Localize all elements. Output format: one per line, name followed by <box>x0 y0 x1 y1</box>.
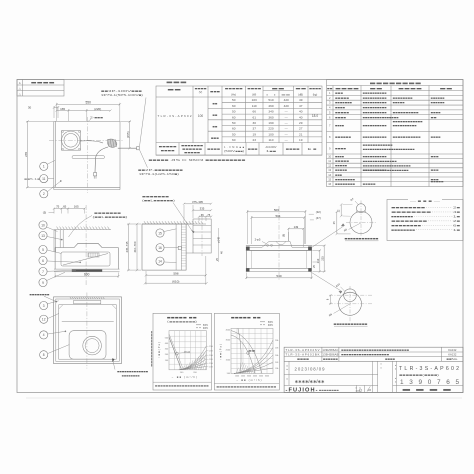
svg-text:■■■■: ■■■■ <box>247 88 262 91</box>
svg-text:■■: ■■ <box>168 88 183 92</box>
svg-text:18.2A: 18.2A <box>184 351 191 354</box>
graph 2 footnote <box>214 383 279 385</box>
svg-text:■■■■: ■■■■ <box>335 147 347 150</box>
svg-text:375~395: 375~395 <box>192 200 203 204</box>
svg-text:1■: 1■ <box>453 214 461 218</box>
svg-text:■■■■■ JIS C 9603 ■■■■■■■■■■: ■■■■■ JIS C 9603 ■■■■■■■■■■ <box>149 158 247 162</box>
svg-text:210: 210 <box>316 258 320 263</box>
svg-text:■■■■■■■: ■■■■■■■ <box>142 195 170 199</box>
balloon 2 <box>40 190 48 198</box>
graph 1 descending curve <box>169 337 182 370</box>
svg-text:■■■■: ■■■■ <box>286 148 301 151</box>
svg-text:■■■■■■■■: ■■■■■■■■ <box>391 215 414 218</box>
svg-text:16: 16 <box>158 246 162 250</box>
svg-text:23: 23 <box>252 138 256 142</box>
svg-text:■■■■■■■■■■■■■: ■■■■■■■■■■■■■ <box>117 371 149 374</box>
svg-text:149: 149 <box>294 225 299 229</box>
svg-text:■■■: ■■■ <box>431 155 440 158</box>
svg-text:9: 9 <box>42 281 44 285</box>
graph 2 box <box>214 313 279 390</box>
svg-text:110: 110 <box>252 104 257 108</box>
svg-text:(610): (610) <box>172 279 179 283</box>
svg-text:■■■■■: ■■■■■ <box>335 165 348 168</box>
svg-text:TLR-3S-AP602SV: TLR-3S-AP602SV <box>286 348 320 352</box>
svg-text:506: 506 <box>274 208 279 212</box>
leader to 2P label <box>140 150 148 168</box>
side view top dims <box>184 203 211 205</box>
svg-text:E ■: E ■ <box>308 147 318 151</box>
svg-text:■■■■■: ■■■■■ <box>184 152 201 155</box>
svg-text:■■■■: ■■■■ <box>335 125 345 128</box>
svg-text:■■■■■■■■■■■■■■■■■■■■■: ■■■■■■■■■■■■■■■■■■■■■ <box>217 385 278 388</box>
svg-text:→ ■■ (m³/h): → ■■ (m³/h) <box>236 378 262 382</box>
svg-text:■■■■■■■■: ■■■■■■■■ <box>335 178 356 181</box>
title block outline <box>284 347 463 392</box>
svg-text:■■■■■■■■■■: ■■■■■■■■■■ <box>363 97 388 100</box>
plan view centerline <box>87 117 89 193</box>
svg-text:8: 8 <box>43 353 45 357</box>
svg-text:60: 60 <box>232 138 236 142</box>
svg-text:■■■■■■■■■■■■■■■■■■■: ■■■■■■■■■■■■■■■■■■■ <box>341 354 390 357</box>
svg-text:■■■■■■: ■■■■■■ <box>431 102 446 105</box>
front view switch box <box>88 253 99 257</box>
svg-text:■■■■■■■■■■: ■■■■■■■■■■ <box>363 125 388 128</box>
dim (155) <box>121 120 132 122</box>
svg-text:7: 7 <box>42 270 44 274</box>
dim 550 <box>56 103 58 121</box>
svg-text:■■■■■■■■: ■■■■■■■■ <box>335 183 356 186</box>
svg-text:(220): (220) <box>94 107 101 111</box>
dim 600 <box>54 273 56 278</box>
svg-text:■■■■: ■■■■ <box>161 150 176 153</box>
svg-text:■■■■■■■■■■■■: ■■■■■■■■■■■■ <box>150 331 153 368</box>
svg-text:(500V■■■): (500V■■■) <box>224 150 244 153</box>
svg-text:460: 460 <box>268 104 273 108</box>
title block model rows <box>284 351 463 353</box>
svg-text:1■■: 1■■ <box>266 150 277 153</box>
svg-text:50: 50 <box>232 98 236 102</box>
side view ceiling hatch <box>142 223 206 225</box>
bottom view filter panel <box>69 331 106 360</box>
power cord to wall <box>118 147 137 149</box>
svg-text:47: 47 <box>299 104 303 108</box>
svg-text:■■■: ■■■ <box>166 81 187 85</box>
side view left dims <box>127 223 141 225</box>
svg-text:190: 190 <box>268 121 273 125</box>
svg-text:15: 15 <box>158 231 162 235</box>
svg-text:■■■■: ■■■■ <box>309 88 322 91</box>
svg-text:6■: 6■ <box>453 223 461 227</box>
svg-text:■■■: ■■■ <box>248 148 259 151</box>
svg-text:■■■: ■■■ <box>210 90 221 94</box>
svg-text:110: 110 <box>269 138 274 142</box>
svg-text:4■: 4■ <box>453 210 461 214</box>
svg-text:3: 3 <box>43 304 45 308</box>
svg-text:■■■■■: ■■■■■ <box>335 111 350 114</box>
svg-text:1■: 1■ <box>453 228 461 232</box>
front view bottom slots <box>54 268 120 270</box>
svg-text:12: 12 <box>328 164 331 168</box>
svg-text:■■■■■ ■■: ■■■■■ ■■ <box>167 315 197 319</box>
svg-text:■■■■■: ■■■■■ <box>159 146 178 149</box>
svg-text:■■■■■■■■: ■■■■■■■■ <box>29 293 50 296</box>
svg-text:■■■■■■■■■■: ■■■■■■■■■■ <box>363 107 388 110</box>
svg-text:■ ■ ■ ■: ■ ■ ■ ■ <box>402 387 455 392</box>
graph 2 grid <box>231 328 273 373</box>
svg-text:■■■■■■■■: ■■■■■■■■ <box>391 224 422 227</box>
svg-text:225: 225 <box>320 256 324 261</box>
svg-text:■■■■■■: ■■■■■■ <box>335 136 352 139</box>
svg-text:■■: ■■ <box>272 86 286 90</box>
svg-text:→ ■■ (m³/h): → ■■ (m³/h) <box>171 375 197 379</box>
svg-text:■■■■■■■■: ■■■■■■■■ <box>393 97 414 100</box>
svg-text:50: 50 <box>232 132 236 136</box>
svg-text:■■: ■■ <box>431 116 438 119</box>
svg-text:■■■■■ ■■: ■■■■■ ■■ <box>231 315 261 319</box>
svg-text:103: 103 <box>252 98 257 102</box>
svg-text:↑■■(Pa): ↑■■(Pa) <box>219 344 223 360</box>
svg-text:■■: ■■ <box>213 113 218 117</box>
svg-text:550: 550 <box>86 101 92 105</box>
svg-text:■■■■■■■(■■■■): ■■■■■■■(■■■■) <box>399 373 439 377</box>
svg-text:6000: 6000 <box>265 375 269 377</box>
slot oval <box>72 156 105 159</box>
side view duct stack <box>193 219 211 253</box>
svg-text:KA132: KA132 <box>448 353 457 357</box>
svg-text:61: 61 <box>252 115 256 119</box>
rear view bottom bar <box>246 267 312 269</box>
svg-text:■■■■■■■■■■■■■■■■■■■■: ■■■■■■■■■■■■■■■■■■■■ <box>363 165 412 168</box>
projection method cells <box>356 385 358 392</box>
svg-text:165: 165 <box>60 107 65 111</box>
svg-text:2-φ5: 2-φ5 <box>255 238 261 242</box>
svg-text:27: 27 <box>299 127 303 131</box>
svg-text:4: 4 <box>43 333 45 337</box>
svg-text:■■■■■■■■■■■■■■■■■■■■■■■■■■■: ■■■■■■■■■■■■■■■■■■■■■■■■■■■ <box>341 349 410 352</box>
svg-text:10: 10 <box>328 154 331 158</box>
balloon 1 <box>40 162 48 170</box>
svg-text:60Hz: 60Hz <box>268 325 274 327</box>
dim 165 / (220) <box>68 109 70 121</box>
side view body <box>142 224 186 270</box>
front view ceiling hatch <box>54 229 111 231</box>
svg-text:■■No.: ■■No. <box>446 357 458 361</box>
svg-text:■■■■■■■■: ■■■■■■■■ <box>391 229 416 232</box>
graph 1 box <box>153 313 211 390</box>
sheet frame <box>17 80 463 393</box>
lower mounting hole detail <box>339 292 362 315</box>
svg-text:■■: ■■ <box>327 88 333 91</box>
bottom view outer <box>54 297 122 364</box>
svg-text:(■■L■■■■■■): (■■L■■■■■■) <box>142 199 175 203</box>
svg-text:■■■: ■■■ <box>335 174 343 177</box>
svg-text:5: 5 <box>42 248 44 252</box>
motor spec strip <box>178 143 180 155</box>
svg-text:60: 60 <box>232 127 236 131</box>
svg-text:2■: 2■ <box>453 219 461 223</box>
svg-text:40: 40 <box>299 110 303 114</box>
svg-text:■■■■■■■■: ■■■■■■■■ <box>319 389 340 392</box>
svg-text:3000: 3000 <box>247 375 251 377</box>
svg-text:12: 12 <box>42 318 46 322</box>
rear right dims 225 210 25 <box>313 245 326 247</box>
svg-text:AC1000V: AC1000V <box>265 145 276 149</box>
svg-text:■■■■■: ■■■■■ <box>335 169 348 172</box>
graph 1 footnote <box>153 381 211 383</box>
svg-text:■■■■■■■■■■■: ■■■■■■■■■■■ <box>393 136 422 139</box>
dim 265 <box>26 120 53 122</box>
svg-text:(6): (6) <box>281 234 285 237</box>
rear view rail <box>246 245 312 247</box>
svg-text:■■■■■■■■■■■■■■■■■■■■: ■■■■■■■■■■■■■■■■■■■■ <box>155 384 210 387</box>
title block bottom caption <box>393 384 463 386</box>
svg-text:360: 360 <box>268 115 273 119</box>
front view side panels <box>53 230 55 252</box>
svg-text:■■■■■■■■: ■■■■■■■■ <box>122 375 141 378</box>
svg-text:■■■■■■■■■■: ■■■■■■■■■■ <box>363 155 388 158</box>
svg-text:49: 49 <box>299 98 303 102</box>
svg-text:■■■■■■■■: ■■■■■■■■ <box>391 220 428 223</box>
svg-text:■■■■: ■■■■ <box>398 87 423 91</box>
svg-text:(V): (V) <box>199 90 203 94</box>
svg-text:■■: ■■ <box>295 88 307 91</box>
leader to lower hole detail <box>310 272 342 292</box>
svg-text:■■■■■■■■■■■■: ■■■■■■■■■■■■ <box>334 322 368 326</box>
svg-text:16: 16 <box>328 182 331 186</box>
svg-text:■■■■: ■■■■ <box>431 111 442 114</box>
svg-text:265: 265 <box>24 152 28 157</box>
svg-text:■■■■■■■■■■: ■■■■■■■■■■ <box>363 136 388 139</box>
svg-text:(dB): (dB) <box>298 93 303 97</box>
svg-text:2023/08/09: 2023/08/09 <box>295 367 326 372</box>
dim 598 and (610) <box>145 271 147 285</box>
svg-text:■■■■■: ■■■■■ <box>393 102 406 105</box>
svg-text:— ■ ■ ■ —: — ■ ■ ■ — <box>410 199 440 203</box>
svg-text:■■■■■: ■■■■■ <box>363 183 377 186</box>
svg-text:75: 75 <box>56 205 60 209</box>
svg-text:TLR-3S-AP602: TLR-3S-AP602 <box>158 114 192 118</box>
side view balloons 15 16 14 <box>156 229 164 237</box>
svg-text:■■■■■■■■■■■■■■■■■■■: ■■■■■■■■■■■■■■■■■■■ <box>363 169 410 172</box>
rear dim 149 <box>288 228 290 241</box>
svg-text:■■■■: ■■■■ <box>335 107 346 110</box>
svg-text:600: 600 <box>84 272 90 276</box>
svg-text:■■■■■■■■: ■■■■■■■■ <box>369 81 421 85</box>
svg-text:(32): (32) <box>316 210 321 214</box>
svg-text:14: 14 <box>158 259 162 263</box>
rear view centerline <box>278 206 280 281</box>
scan artifact line <box>26 397 462 399</box>
rear view body <box>247 250 312 268</box>
svg-text:1/6: 1/6 <box>367 388 371 392</box>
title block left date area <box>288 361 290 385</box>
svg-text:■■5.1■: ■■5.1■ <box>24 177 41 181</box>
svg-text:50Hz: 50Hz <box>203 325 209 327</box>
svg-text:■■■■■■■■: ■■■■■■■■ <box>391 211 432 214</box>
svg-text:∗∗∗∗/∗∗/∗∗: ∗∗∗∗/∗∗/∗∗ <box>295 379 325 384</box>
svg-text:13: 13 <box>328 168 331 172</box>
svg-text:■■■■: ■■■■ <box>335 87 360 91</box>
front view balloons <box>39 221 47 229</box>
svg-text:■■■■■■■■■■■■: ■■■■■■■■■■■■ <box>393 121 424 124</box>
svg-text:■■■■: ■■■■ <box>385 357 395 361</box>
svg-text:540: 540 <box>276 274 281 278</box>
leader to upper hole detail <box>312 226 344 248</box>
leader to 3P label <box>140 98 147 147</box>
bottom view louver hatch <box>70 297 71 299</box>
rear view mounting brackets (dark) <box>246 247 249 250</box>
svg-text:■■■■■■■■■■■■■■■: ■■■■■■■■■■■■■■■ <box>363 116 400 119</box>
svg-text:(■■■■■■■■): (■■■■■■■■) <box>167 320 197 323</box>
svg-text:60: 60 <box>232 115 236 119</box>
svg-text:598: 598 <box>173 271 178 275</box>
svg-text:TLR-3S-AP602BK: TLR-3S-AP602BK <box>286 353 320 357</box>
front view centerline <box>85 205 87 285</box>
svg-text:■■■■: ■■■■ <box>431 136 442 139</box>
svg-text:■■■■■: ■■■■■ <box>225 88 244 91</box>
svg-text:420: 420 <box>284 104 289 108</box>
svg-text:■■■■: ■■■■ <box>335 116 347 119</box>
svg-text:■■■■■■■■■■■■: ■■■■■■■■■■■■ <box>363 144 394 147</box>
cable from duct to connector <box>80 141 103 143</box>
svg-text:50: 50 <box>232 110 236 114</box>
svg-text:■■■■: ■■■■ <box>31 81 56 85</box>
svg-text:■■■■: ■■■■ <box>207 148 221 151</box>
duct flange <box>62 131 81 151</box>
title block vertical separators right <box>392 361 394 392</box>
characteristics table grid <box>156 86 322 155</box>
svg-text:■■■■: ■■■■ <box>297 357 310 361</box>
svg-text:■■■■■■■: ■■■■■■■ <box>94 211 122 215</box>
svg-text:■■■■■■■■: ■■■■■■■■ <box>391 207 426 210</box>
svg-text:504: 504 <box>275 214 280 218</box>
rear view hump profile <box>246 241 312 247</box>
front view oil panel <box>61 252 110 266</box>
graph 2 legend <box>260 321 265 323</box>
svg-text:■■■■■: ■■■■■ <box>431 181 445 184</box>
rear dim 506 <box>246 210 248 244</box>
svg-text:30: 30 <box>28 106 32 110</box>
svg-text:■■: ■■ <box>213 102 218 106</box>
svg-text:■■■■■■: ■■■■■■ <box>431 97 446 100</box>
svg-text:(5): (5) <box>43 211 46 215</box>
side view rear bracket strip <box>175 224 177 270</box>
svg-text:■■■: ■■■ <box>211 136 219 140</box>
svg-text:2■: 2■ <box>453 206 461 210</box>
svg-text:335: 335 <box>200 206 205 210</box>
graph 2 rising curves <box>234 340 273 374</box>
svg-text:2000: 2000 <box>241 375 245 377</box>
svg-text:30: 30 <box>252 121 256 125</box>
svg-text:21: 21 <box>299 132 303 136</box>
svg-text:■■■■■: ■■■■■ <box>335 97 350 100</box>
svg-text:19: 19 <box>299 138 303 142</box>
bottom view balloons <box>40 301 48 309</box>
svg-text:■■■■■■■■■■: ■■■■■■■■■■ <box>363 102 388 105</box>
svg-text:■■■■■■■■■■: ■■■■■■■■■■ <box>363 111 388 114</box>
rear dim 540 <box>245 273 247 279</box>
svg-text:19: 19 <box>252 132 256 136</box>
svg-text:510: 510 <box>268 98 273 102</box>
svg-text:445~735: 445~735 <box>125 241 129 252</box>
svg-text:■■: ■■ <box>440 87 454 91</box>
accessories box <box>387 200 463 241</box>
svg-text:■■■■: ■■■■ <box>335 155 345 158</box>
svg-text:50: 50 <box>232 121 236 125</box>
svg-text:37: 37 <box>252 127 256 131</box>
svg-text:2-■■■: 2-■■■ <box>90 115 104 119</box>
svg-text:139H586AB: 139H586AB <box>322 353 338 357</box>
svg-text:18.0: 18.0 <box>312 114 318 118</box>
svg-text:10: 10 <box>41 223 45 227</box>
svg-text:11: 11 <box>328 159 331 163</box>
svg-text:29: 29 <box>299 121 303 125</box>
svg-text:3P79-1(H25-150■): 3P79-1(H25-150■) <box>139 172 179 176</box>
graph 2 descending arcs <box>231 335 255 374</box>
svg-text:15: 15 <box>328 177 331 181</box>
svg-text:11: 11 <box>42 177 46 181</box>
plan view outline <box>53 121 55 189</box>
svg-text:14: 14 <box>328 173 331 177</box>
svg-text:410~700: 410~700 <box>133 241 137 252</box>
svg-text:■■■■■■■■■■: ■■■■■■■■■■ <box>393 111 420 114</box>
svg-text:■■■: ■■■ <box>335 92 344 95</box>
svg-text:A: A <box>19 81 21 85</box>
svg-text:(W): (W) <box>252 93 256 97</box>
graph 1 legend <box>196 324 201 326</box>
svg-text:13: 13 <box>41 234 45 238</box>
svg-text:220: 220 <box>268 127 273 131</box>
svg-text:-FUJIOH-: -FUJIOH- <box>286 388 318 394</box>
svg-text:(kg): (kg) <box>313 93 318 97</box>
front view hood body <box>55 243 118 247</box>
svg-text:66: 66 <box>252 110 256 114</box>
svg-text:3P79-1(5P5-100V■): 3P79-1(5P5-100V■) <box>101 93 143 97</box>
svg-text:65: 65 <box>201 213 204 217</box>
svg-text:■■: ■■ <box>370 87 384 91</box>
svg-text:5000: 5000 <box>259 375 263 377</box>
svg-text:4000: 4000 <box>253 375 257 377</box>
svg-text:165: 165 <box>74 205 79 209</box>
svg-text:■■■■■: ■■■■■ <box>335 160 350 163</box>
svg-text:KA132: KA132 <box>448 348 457 352</box>
revision table <box>17 80 64 97</box>
svg-text:(47): (47) <box>316 216 321 220</box>
svg-text:(■■L■■■■■■): (■■L■■■■■■) <box>93 215 128 219</box>
svg-text:100: 100 <box>268 132 273 136</box>
svg-text:■■■■■■■■■■: ■■■■■■■■■■ <box>393 125 418 128</box>
svg-text:65: 65 <box>63 205 67 209</box>
svg-text:(155): (155) <box>126 131 130 138</box>
svg-text:↑■■(Pa): ↑■■(Pa) <box>157 342 161 358</box>
svg-text:100: 100 <box>198 114 204 118</box>
svg-text:139H586AC: 139H586AC <box>322 348 338 352</box>
graph 1 fan curves <box>179 346 206 370</box>
balloon 11 <box>40 175 48 183</box>
svg-text:6: 6 <box>42 259 44 263</box>
svg-text:■■■■■■■■■■: ■■■■■■■■■■ <box>363 92 388 95</box>
duct hole circles <box>62 131 80 149</box>
svg-text:(Hz): (Hz) <box>231 93 236 97</box>
svg-text:40: 40 <box>299 115 303 119</box>
svg-text:75: 75 <box>207 213 210 217</box>
svg-text:1: 1 <box>43 165 45 169</box>
rear dim 504 <box>251 216 253 244</box>
svg-text:■■■■■■: ■■■■■■ <box>323 358 339 361</box>
svg-text:420: 420 <box>284 98 289 102</box>
parts table <box>327 80 464 187</box>
svg-text:■■2P-■■■■■■■■: ■■2P-■■■■■■■■ <box>138 168 183 172</box>
